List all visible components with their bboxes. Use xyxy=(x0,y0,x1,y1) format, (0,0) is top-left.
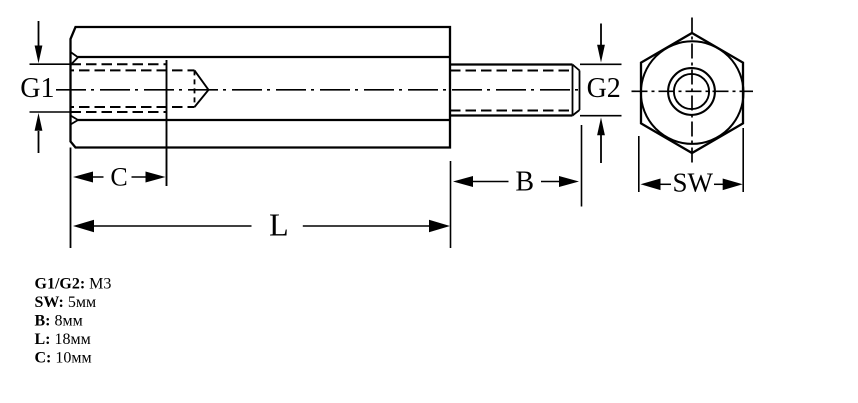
internal drill hole bottom (dashed) xyxy=(71,106,195,108)
hex facet line bottom xyxy=(78,119,450,121)
stud thread runout line xyxy=(572,65,574,116)
svg-text:G2: G2 xyxy=(587,73,621,104)
G2 bottom extension line xyxy=(580,115,622,117)
center line (side view) xyxy=(56,89,579,91)
L dimension line left arrow xyxy=(73,220,94,232)
G2 top arrow xyxy=(600,24,602,46)
thread minor circle xyxy=(674,74,709,109)
stud chamfer top xyxy=(573,65,580,71)
SW dimension left arrow xyxy=(641,179,661,191)
hex facet line top xyxy=(78,56,450,58)
stud thread minor dia bottom (dashed) xyxy=(450,110,574,112)
end view horizontal centerline xyxy=(632,90,754,92)
thread major circle xyxy=(668,68,715,115)
svg-text:C: 10мм: C: 10мм xyxy=(35,350,92,367)
drill cone xyxy=(195,70,209,107)
L left extension line (body edge extended) xyxy=(70,148,72,249)
B dimension line right arrow xyxy=(541,181,560,183)
SW right extension line xyxy=(742,128,744,192)
B left extension line xyxy=(450,161,452,248)
internal thread major dia bottom (dashed) xyxy=(71,111,167,113)
drill end line (dashed vertical) xyxy=(194,70,196,107)
internal drill hole top (dashed) xyxy=(71,69,195,71)
stud bottom edge xyxy=(450,114,573,116)
G1 top extension line xyxy=(30,63,71,65)
svg-text:SW: SW xyxy=(672,168,713,198)
svg-text:G1/G2: M3: G1/G2: M3 xyxy=(35,276,112,293)
G1 bottom arrow xyxy=(38,131,40,153)
internal thread major dia top (dashed) xyxy=(71,63,167,65)
thread depth line / C extension xyxy=(166,60,168,186)
svg-text:L: L xyxy=(269,207,289,243)
stud top edge xyxy=(450,63,573,65)
standoff body outline (side view) xyxy=(71,27,451,148)
B dimension line left arrow xyxy=(453,176,473,187)
inscribed circle xyxy=(641,41,744,144)
G1 top arrow xyxy=(38,21,40,46)
svg-text:C: C xyxy=(110,162,127,191)
B right extension line xyxy=(581,125,583,207)
SW left extension line xyxy=(638,136,640,192)
svg-text:B: 8мм: B: 8мм xyxy=(35,313,83,330)
G1 bottom extension line xyxy=(30,111,71,113)
facet chamfer mark top xyxy=(71,52,79,65)
stud thread minor dia top (dashed) xyxy=(450,70,574,72)
L dimension line right arrow xyxy=(303,225,430,227)
svg-text:L: 18мм: L: 18мм xyxy=(35,331,91,348)
G2 bottom arrow xyxy=(600,135,602,163)
end view vertical centerline xyxy=(691,18,693,166)
svg-text:B: B xyxy=(515,167,534,198)
svg-text:SW: 5мм: SW: 5мм xyxy=(35,294,97,311)
G2 top extension line xyxy=(580,63,622,65)
hexagon (end view) xyxy=(641,33,743,153)
facet chamfer mark bottom xyxy=(71,116,79,125)
SW dimension right arrow xyxy=(714,183,723,185)
svg-text:G1: G1 xyxy=(20,73,54,104)
stud end cap xyxy=(579,71,581,111)
stud chamfer bottom xyxy=(573,110,580,116)
C dimension line left arrow xyxy=(73,172,93,183)
C dimension line right arrow xyxy=(132,176,147,178)
